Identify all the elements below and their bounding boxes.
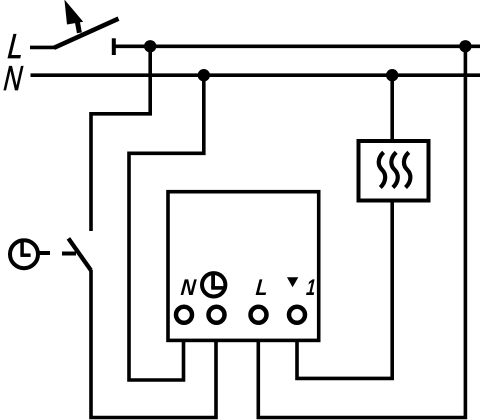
terminal clock circle — [209, 307, 225, 323]
switch S1 actuator arrowhead — [64, 0, 83, 25]
wire clock switch to terminal clock — [91, 270, 216, 418]
timer unit U1 box — [168, 192, 319, 341]
timer clock P1 hand right — [20, 253, 30, 257]
terminal label clock hand up — [211, 274, 215, 288]
wire N bus — [31, 73, 480, 77]
node A (L junction) — [144, 40, 156, 52]
terminal 1 circle — [289, 307, 305, 323]
node C (L junction right) — [459, 40, 471, 52]
heater wavy line 2 — [391, 152, 397, 187]
terminal label clock hand right — [211, 286, 226, 290]
wire L bus to terminal L — [258, 46, 465, 417]
svg-text:N: N — [2, 61, 24, 99]
wire from node A down to clock switch — [91, 46, 150, 231]
wire N branch to terminal N — [129, 75, 204, 380]
switch S1 fixed contact — [112, 38, 116, 55]
heater E1 box — [359, 141, 429, 201]
timer clock P1 hand up — [20, 242, 24, 255]
terminal N circle — [176, 307, 192, 323]
wire N bus to heater — [390, 75, 394, 140]
node B (N junction) — [198, 69, 210, 81]
clock switch blade — [68, 238, 91, 270]
terminal label clock circle — [202, 273, 225, 296]
switch S1 blade — [54, 19, 119, 48]
terminal L circle — [251, 307, 267, 323]
wire L bus — [114, 44, 480, 48]
wire L stub — [30, 46, 55, 50]
clock switch fixed contact tick — [62, 252, 76, 256]
timer clock P1 circle — [10, 240, 38, 268]
heater wavy line 1 — [379, 152, 385, 187]
heater wavy line 3 — [404, 152, 410, 187]
terminal label output triangle — [287, 277, 298, 287]
switch S1 actuator arrow shaft — [77, 22, 79, 33]
wire heater to terminal 4 — [297, 201, 392, 378]
node D (N junction right) — [386, 69, 398, 81]
svg-text:L: L — [255, 275, 269, 300]
mechanical link clock to switch — [38, 251, 50, 255]
